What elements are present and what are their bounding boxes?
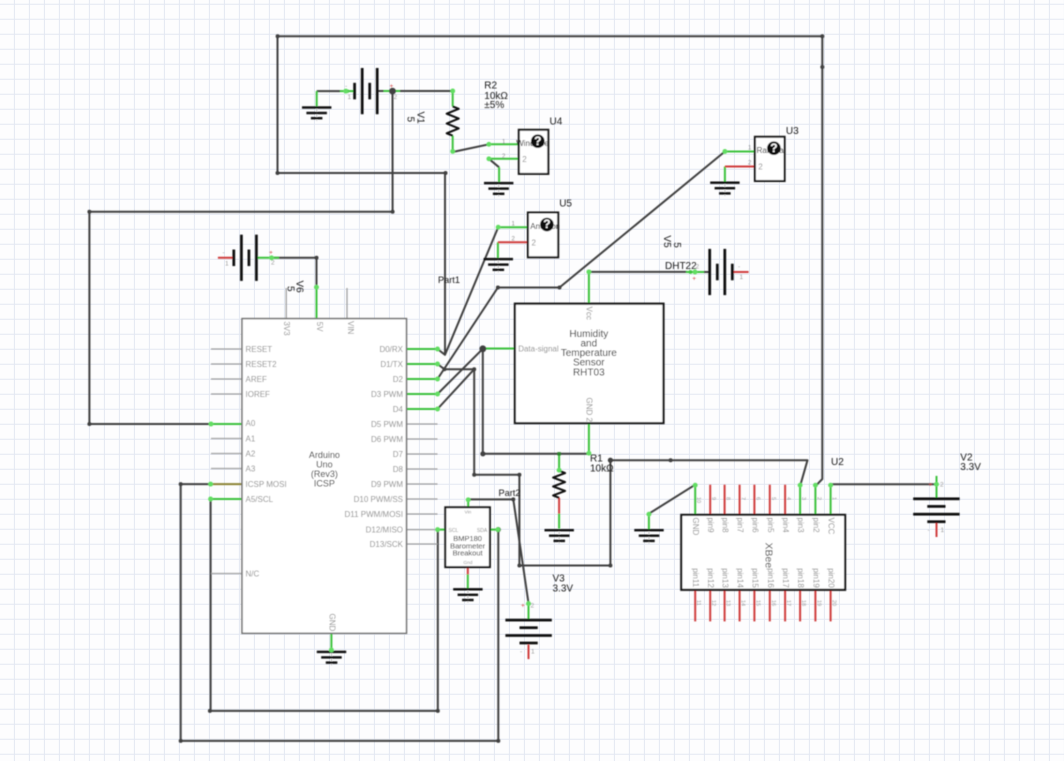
labels Arduino left pins	[246, 345, 287, 579]
svg-text:pin17: pin17	[781, 568, 790, 588]
svg-text:1: 1	[348, 94, 352, 101]
green bend marker 5V corner	[315, 286, 319, 290]
svg-text:SDA: SDA	[477, 528, 488, 534]
svg-text:N/C: N/C	[246, 569, 260, 578]
svg-text:U3: U3	[786, 126, 799, 137]
wire V1+ to resistor R2 top	[377, 90, 384, 92]
svg-text:?: ?	[770, 141, 777, 155]
green bend marker V1 lead	[345, 90, 348, 93]
red leg BMP180 Gnd	[467, 567, 469, 574]
svg-text:18: 18	[800, 600, 806, 606]
svg-text:Data-signal: Data-signal	[518, 344, 559, 353]
wire D3 to Data-signal junction (diagonal)	[438, 349, 483, 394]
svg-text:16: 16	[770, 600, 776, 606]
svg-text:pin18: pin18	[796, 568, 805, 588]
wire bend point (180.7,484.1)	[179, 482, 183, 486]
svg-text:pin14: pin14	[736, 568, 745, 588]
svg-text:2: 2	[522, 155, 527, 164]
wire horizontal rail to RHT03 GND2 / R1 top	[483, 453, 589, 455]
wire bend point (822.3,67)	[820, 65, 824, 69]
battery V3 (3.3V)	[505, 619, 551, 645]
svg-text:±5%: ±5%	[484, 100, 504, 111]
svg-text:RHT03: RHT03	[573, 367, 605, 378]
badge question-mark icon U3	[767, 141, 781, 155]
svg-text:Arduino: Arduino	[309, 450, 340, 460]
svg-text:1: 1	[531, 649, 535, 656]
ground symbol under U4	[484, 182, 513, 197]
wire bend point (277.6,36.2)	[276, 34, 280, 38]
ground symbol under U3	[710, 182, 739, 197]
resistor R2 10k	[447, 106, 459, 135]
red leg battery V5 negative (unconnected)	[732, 271, 748, 273]
svg-text:VCC: VCC	[827, 518, 836, 535]
svg-text:6: 6	[754, 497, 760, 500]
svg-text:1: 1	[740, 274, 744, 281]
svg-text:14: 14	[740, 600, 746, 606]
red leg battery V2 negative (unconnected)	[936, 522, 938, 537]
green leg ground at U5	[497, 242, 499, 258]
svg-text:19: 19	[815, 600, 821, 606]
sensor U4 box (WindSpeed)	[519, 130, 549, 174]
green leg ground at BMP180	[467, 574, 469, 588]
wire R2 bottom to U4 pin1 (diagonal)	[453, 144, 489, 152]
wire net A0 to V1+ : A0 left, up, across top to V1 junction	[89, 91, 392, 424]
wire bend point (474.2,474.8)	[472, 473, 476, 477]
svg-text:D6 PWM: D6 PWM	[371, 435, 403, 444]
svg-text:RESET2: RESET2	[246, 360, 278, 369]
svg-text:Uno: Uno	[316, 460, 333, 470]
pin numbers XBee bottom 11..20	[695, 600, 836, 606]
red leg XBee pin17 (unconnected)	[784, 590, 786, 622]
svg-text:Vcc: Vcc	[585, 307, 594, 320]
green leg battery V3 positive	[528, 603, 530, 620]
dark stub battery V5 lead tail	[704, 271, 710, 273]
svg-text:1: 1	[225, 261, 229, 268]
sensor RHT03 box (Humidity and Temperature)	[515, 304, 664, 423]
svg-text:5: 5	[285, 286, 296, 292]
ground symbol near XBee	[634, 529, 663, 544]
svg-text:3.3V: 3.3V	[553, 583, 574, 594]
svg-text:-: -	[520, 649, 522, 656]
svg-text:D5 PWM: D5 PWM	[371, 420, 403, 429]
svg-text:SCL: SCL	[449, 528, 459, 534]
red leg XBee pin4 (unconnected)	[784, 485, 786, 515]
svg-text:1: 1	[941, 527, 945, 534]
svg-text:pin2: pin2	[811, 518, 820, 534]
wire bend point (392.6,211.8)	[391, 210, 395, 214]
svg-text:20: 20	[831, 600, 837, 606]
svg-text:RESET: RESET	[246, 345, 273, 354]
red leg XBee pin19 (unconnected)	[814, 590, 816, 622]
svg-text:D11 PWM/MOSI: D11 PWM/MOSI	[344, 510, 403, 519]
svg-text:11: 11	[695, 600, 701, 606]
red leg XBee pin9 (unconnected)	[709, 485, 711, 515]
red leg U5 pin2 (unconnected)	[498, 241, 528, 243]
wire bend point (474.2,369.2)	[472, 367, 476, 371]
svg-text:pin13: pin13	[721, 568, 730, 588]
olive leg Arduino ICSP MOSI	[211, 483, 242, 485]
svg-text:+: +	[929, 482, 933, 489]
labels XBee bottom pins	[691, 568, 835, 588]
green leg RHT03 GND2	[588, 423, 590, 454]
svg-text:D7: D7	[393, 450, 404, 459]
svg-text:R2: R2	[484, 81, 497, 92]
svg-text:17: 17	[785, 600, 791, 606]
wire bend point (89.4,424)	[87, 422, 91, 426]
battery V6 (5V)	[232, 235, 257, 281]
wire D0 node to U5 pin1 (diagonal)	[445, 227, 498, 355]
svg-text:pin7: pin7	[736, 518, 745, 534]
svg-text:GND: GND	[328, 614, 337, 632]
svg-text:2: 2	[532, 238, 537, 247]
svg-text:XBee: XBee	[763, 543, 775, 569]
svg-text:pin16: pin16	[766, 568, 775, 588]
red leg XBee pin12 (unconnected)	[709, 590, 711, 622]
green leg XBee pin3	[799, 485, 801, 515]
svg-text:ICSP: ICSP	[314, 479, 335, 489]
green leg Arduino D2	[407, 378, 438, 380]
red leg XBee pin8 (unconnected)	[724, 485, 726, 515]
green segment battery V5 positive lead	[686, 271, 704, 273]
svg-text:4: 4	[785, 497, 791, 500]
svg-text:5: 5	[671, 242, 682, 248]
svg-text:2: 2	[758, 163, 763, 172]
svg-text:-: -	[738, 264, 740, 271]
wire bend point (559.5,287.5)	[558, 286, 562, 290]
label RHT03 center text	[561, 329, 618, 378]
svg-text:GND: GND	[691, 518, 700, 536]
red leg battery V6 negative (unconnected)	[218, 257, 234, 259]
green segment V1 positive lead	[384, 90, 401, 92]
svg-text:(Rev3): (Rev3)	[311, 469, 338, 479]
gray stubs Arduino right unconnected pins D5-D13	[407, 423, 438, 425]
badge question-mark icon U5	[540, 217, 554, 231]
wire ICSP MOSI to BMP180 SDA (left, down, right, up)	[181, 484, 499, 741]
svg-text:A3: A3	[246, 464, 256, 473]
svg-text:Gnd: Gnd	[463, 560, 472, 566]
svg-text:pin8: pin8	[721, 518, 730, 534]
red leg XBee pin16 (unconnected)	[769, 590, 771, 622]
svg-text:5V: 5V	[315, 322, 324, 332]
wire bend point (610.4,565.5)	[608, 564, 612, 568]
green leg RHT03 Vcc	[588, 272, 590, 304]
svg-text:pin12: pin12	[706, 568, 715, 588]
svg-text:A0: A0	[246, 419, 256, 428]
svg-text:D3 PWM: D3 PWM	[371, 390, 403, 399]
green segment V1 negative lead	[340, 90, 355, 92]
svg-text:2: 2	[815, 497, 821, 500]
wire bend point (498.3,740.9)	[496, 739, 500, 743]
green leg Arduino A0	[211, 423, 242, 425]
green leg Arduino D1	[407, 363, 438, 365]
wire bend point (444.4,369.2)	[442, 367, 446, 371]
red leg XBee pin13 (unconnected)	[724, 590, 726, 622]
wire XBee GND pin to ground (diagonal)	[649, 485, 695, 514]
green leg BMP180 Vin	[467, 499, 469, 507]
svg-text:10: 10	[695, 497, 701, 503]
svg-text:pin3: pin3	[796, 518, 805, 534]
svg-text:7: 7	[740, 497, 746, 500]
red leg XBee pin15 (unconnected)	[753, 590, 755, 622]
sensor U5 box (Anemometer)	[528, 213, 558, 258]
green leg U3 pin1	[725, 151, 755, 153]
wire bend point (445.5,173)	[444, 171, 448, 175]
green segment battery V6 positive lead	[257, 257, 279, 259]
svg-text:pin5: pin5	[766, 518, 775, 534]
green leg R2 pin2	[452, 136, 454, 152]
svg-text:pin11: pin11	[691, 568, 700, 588]
svg-text:Vin: Vin	[464, 510, 471, 516]
svg-text:GND 2: GND 2	[585, 398, 594, 423]
svg-text:3V3: 3V3	[282, 321, 291, 336]
green leg ground at XBee	[648, 514, 650, 529]
gray stubs Arduino left unconnected pins	[211, 348, 242, 350]
junction dot BMP180 SDA node	[496, 527, 501, 532]
wire V6+ to Arduino 5V (right then down)	[272, 258, 317, 288]
red leg battery V3 negative (unconnected)	[528, 645, 530, 659]
green leg BMP180 SDA	[490, 529, 498, 531]
green leg R2 pin1	[452, 91, 454, 107]
green leg U5 pin1	[498, 226, 528, 228]
svg-text:3.3V: 3.3V	[960, 462, 981, 473]
wire bend point (519.4,565.5)	[517, 564, 521, 568]
wire bend point (180.7,740.9)	[179, 739, 183, 743]
green leg ground at U4	[498, 167, 500, 182]
svg-text:5: 5	[770, 497, 776, 500]
green leg Arduino D0	[407, 348, 438, 350]
svg-text:15: 15	[754, 600, 760, 606]
wire net D0/RX: elbow, up, across top border, down right side to XBee pin2	[278, 36, 823, 486]
ground symbol under R1	[545, 529, 574, 544]
ground symbol near battery V1	[302, 106, 331, 121]
ground symbol under Arduino GND	[317, 651, 346, 666]
svg-text:D0/RX: D0/RX	[379, 345, 403, 354]
svg-text:pin4: pin4	[781, 518, 790, 534]
svg-text:IOREF: IOREF	[246, 390, 271, 399]
svg-text:+: +	[521, 603, 525, 610]
badge question-mark icon U4	[531, 134, 545, 148]
svg-text:13: 13	[725, 600, 731, 606]
svg-text:U5: U5	[559, 199, 572, 210]
green leg XBee VCC	[830, 485, 832, 515]
wire net D2 to U3 pin1 via Part1 bends	[438, 152, 725, 380]
svg-text:10kΩ: 10kΩ	[590, 463, 614, 474]
wire DHT22 battery V5 to RHT03 Vcc	[589, 271, 687, 273]
green endpoint markers on connected legs	[208, 89, 939, 653]
green leg battery V2 positive	[936, 476, 938, 499]
label BMP180 center text	[450, 534, 486, 558]
wire D4 to D1-net corner (diagonal)	[438, 369, 475, 409]
wire Part2: BMP180 Vin to V3+ (horizontal then diagonal)	[468, 499, 528, 603]
green leg Arduino 5V	[316, 287, 318, 319]
pin numbers XBee top 10..1	[695, 497, 836, 503]
wire bend point (670.6,460.2)	[669, 458, 673, 462]
svg-text:A1: A1	[246, 434, 256, 443]
green leg ground at R1	[558, 514, 560, 529]
svg-text:1: 1	[831, 497, 837, 500]
svg-text:A5/SCL: A5/SCL	[246, 495, 274, 504]
wire bend point (822.3,36.2)	[820, 34, 824, 38]
svg-text:D1/TX: D1/TX	[380, 360, 403, 369]
svg-text:D8: D8	[393, 465, 404, 474]
green leg U4 pin2	[489, 158, 519, 160]
battery V5 DHT22 (5V)	[708, 249, 733, 295]
green leg XBee GND	[694, 485, 696, 515]
labels XBee top pins	[691, 518, 835, 536]
wire Data-signal junction down to GND2 rail	[482, 349, 484, 454]
resistor R1 10k	[553, 471, 565, 498]
red leg XBee pin6 (unconnected)	[753, 485, 755, 515]
svg-text:pin19: pin19	[811, 568, 820, 588]
green leg U4 pin1	[489, 143, 519, 145]
svg-text:D13/SCK: D13/SCK	[370, 540, 404, 549]
gray stub Arduino 3V3	[285, 288, 287, 319]
red leg XBee pin20 (unconnected)	[830, 590, 832, 622]
svg-text:2: 2	[696, 264, 700, 271]
gray stub Arduino D12/MISO	[407, 529, 438, 531]
ground symbol under BMP180	[453, 588, 482, 603]
green leg BMP180 SCL	[437, 529, 445, 531]
svg-text:?: ?	[534, 134, 541, 148]
wire A5/SCL to BMP180 SCL (down, right, up)	[211, 499, 438, 711]
svg-text:5: 5	[405, 117, 416, 123]
green leg XBee pin2	[814, 485, 816, 515]
gray stub Arduino VIN	[346, 288, 348, 319]
svg-text:U2: U2	[831, 457, 844, 468]
wire U4 pin2 jog to ground	[489, 159, 499, 168]
svg-text:9: 9	[710, 497, 716, 500]
red leg R1 pin2	[558, 498, 560, 514]
wire bend point (519.4,474.8)	[517, 473, 521, 477]
svg-text:pin9: pin9	[706, 518, 715, 534]
svg-text:8: 8	[725, 497, 731, 500]
svg-text:D10 PWM/SS: D10 PWM/SS	[354, 495, 403, 504]
wire bend point (209.9,710.9)	[208, 709, 212, 713]
sensor U3 box (RainGauge)	[755, 137, 785, 181]
green leg Arduino D3	[407, 393, 438, 395]
green tap marker R1 top on rail	[557, 452, 560, 455]
svg-text:Breakout: Breakout	[453, 549, 484, 558]
green leg RHT03 Data-signal	[483, 348, 515, 350]
battery polarity marks	[223, 83, 945, 656]
svg-text:pin6: pin6	[750, 518, 759, 534]
wire bend point (316.5,257.8)	[315, 256, 319, 260]
svg-text:pin20: pin20	[827, 568, 836, 588]
labels Arduino right pins	[344, 345, 403, 549]
svg-text:V5: V5	[661, 235, 672, 248]
label Arduino center text	[309, 450, 340, 489]
green leg Arduino GND	[330, 633, 332, 650]
svg-text:Part1: Part1	[438, 275, 460, 285]
battery V1 (5V)	[353, 68, 378, 114]
wire bend point (437.8,710.9)	[436, 709, 440, 713]
green leg ground at U3	[724, 167, 726, 182]
XBee U2 box	[681, 515, 845, 590]
svg-text:2: 2	[394, 94, 398, 101]
wire bend point (497.9,287.5)	[496, 286, 500, 290]
ground symbol under U5	[484, 258, 513, 273]
junction dot Data-signal node	[479, 345, 486, 352]
red leg XBee pin7 (unconnected)	[739, 485, 741, 515]
svg-text:Part2: Part2	[499, 488, 521, 498]
red leg U3 pin2 (unconnected)	[725, 166, 755, 168]
BMP180 Barometer Breakout box	[445, 507, 490, 567]
green leg ground at V1	[316, 91, 318, 106]
svg-text:+: +	[390, 83, 394, 90]
svg-text:pin15: pin15	[750, 568, 759, 588]
wire bend point (89.4,211.8)	[87, 210, 91, 214]
svg-text:VIN: VIN	[346, 321, 355, 335]
svg-text:?: ?	[543, 217, 550, 231]
red leg XBee pin18 (unconnected)	[799, 590, 801, 622]
svg-text:AREF: AREF	[246, 375, 267, 384]
svg-text:D9 PWM: D9 PWM	[371, 480, 403, 489]
svg-text:-: -	[223, 250, 225, 257]
svg-text:-: -	[928, 527, 930, 534]
wire bend point (277.5,173)	[276, 171, 280, 175]
svg-text:D4: D4	[393, 405, 404, 414]
svg-text:12: 12	[710, 600, 716, 606]
svg-text:D12/MISO: D12/MISO	[366, 525, 403, 534]
wire net D1/TX to XBee pin3 (elbow, right, down, right, down, right, up, right, diagonal)	[438, 364, 808, 566]
green leg Arduino D4	[407, 408, 438, 410]
green bend marker V5 lead	[689, 270, 693, 274]
wire bend point (513.3,499.4)	[511, 497, 515, 501]
junction dot GND2 rail node	[480, 451, 485, 456]
svg-text:A2: A2	[246, 449, 256, 458]
red leg XBee pin5 (unconnected)	[769, 485, 771, 515]
svg-text:DHT22: DHT22	[665, 261, 697, 272]
wire XBee VCC to battery V2+	[831, 483, 937, 485]
svg-text:+: +	[692, 275, 696, 282]
svg-text:2: 2	[271, 260, 275, 267]
svg-text:ICSP MOSI: ICSP MOSI	[246, 480, 287, 489]
Arduino Uno U-main box	[242, 319, 407, 634]
red leg XBee pin11 (unconnected)	[694, 590, 696, 622]
junction dot V1 positive node	[389, 88, 396, 95]
svg-text:D2: D2	[393, 375, 404, 384]
svg-text:2: 2	[531, 603, 535, 610]
junction dot R1/XBee pin3 node	[608, 458, 613, 463]
green leg Arduino A5/SCL	[211, 498, 242, 500]
svg-text:2: 2	[940, 482, 944, 489]
svg-text:3: 3	[800, 497, 806, 500]
red leg XBee pin14 (unconnected)	[739, 590, 741, 622]
battery V2 (3.3V)	[913, 497, 959, 523]
svg-text:U4: U4	[550, 117, 563, 128]
wire V1 junction vertical is part of above; horizontal V1 left lead to ground corner	[317, 90, 340, 92]
green leg R1 pin1	[558, 454, 560, 471]
